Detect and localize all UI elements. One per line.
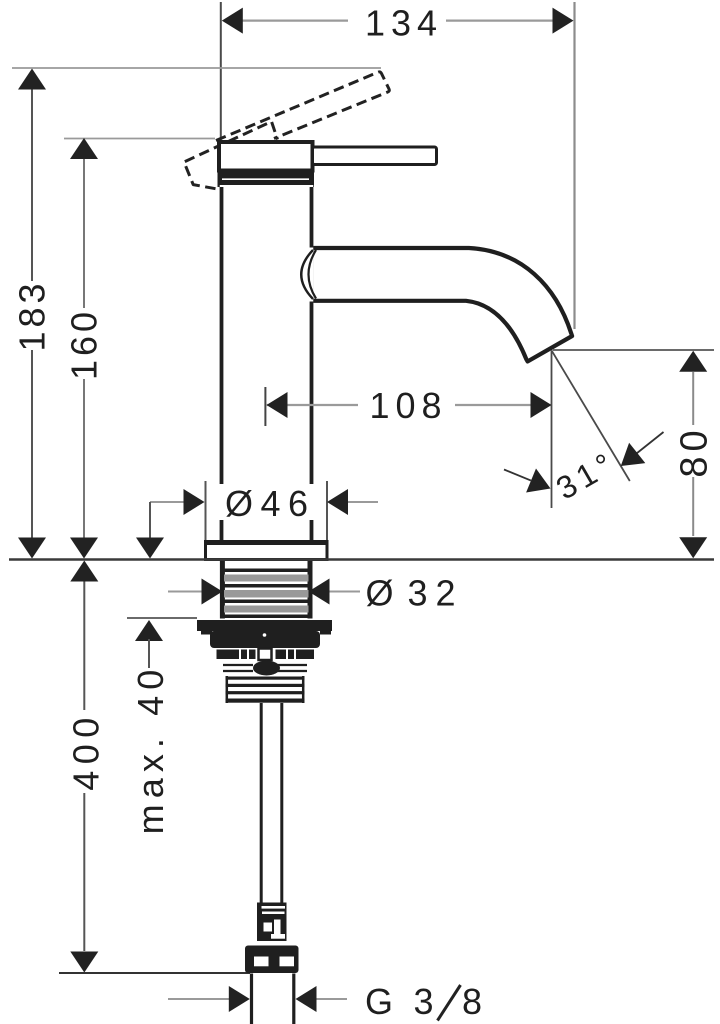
faucet: threaded shank (222, 561, 310, 619)
faucet: lever handle (solid) (313, 147, 437, 165)
svg-text:183: 183 (12, 279, 53, 351)
faucet: mounting nut (197, 620, 332, 676)
svg-text:160: 160 (64, 308, 105, 380)
dimension 183 (12, 68, 382, 559)
svg-text:8: 8 (462, 981, 482, 1022)
faucet: spout (311, 248, 572, 361)
svg-text:3: 3 (414, 981, 434, 1022)
svg-text:G: G (365, 981, 393, 1022)
faucet: body (220, 185, 314, 542)
dimension 108 (265, 385, 551, 426)
dimension 160 (64, 138, 216, 559)
faucet: cartridge head (218, 142, 315, 187)
dimension 31 degrees (504, 350, 664, 508)
svg-text:108: 108 (369, 385, 447, 426)
faucet: spout collar (301, 250, 313, 299)
faucet: base plate (206, 542, 328, 560)
dimension 134 (221, 2, 575, 329)
faucet: lower thread (226, 676, 305, 703)
svg-text:80: 80 (674, 425, 716, 477)
dimension G 3/8 (168, 981, 482, 1022)
svg-text:Ø46: Ø46 (225, 483, 316, 524)
dimension 400 (59, 561, 250, 974)
dimension diameter 46 (136, 481, 378, 559)
mounting surface (9, 558, 714, 560)
svg-text:max. 40: max. 40 (130, 664, 171, 835)
svg-text:134: 134 (365, 3, 443, 44)
svg-text:Ø32: Ø32 (366, 573, 464, 614)
faucet: dashed lever (open position) (184, 72, 389, 189)
svg-text:31°: 31° (550, 444, 623, 507)
dimension max. 40 (127, 618, 197, 834)
dimension 80 (553, 350, 716, 558)
faucet: compression fitting (257, 903, 287, 942)
dimension diameter 32 (168, 573, 464, 614)
faucet: G3/8 connector (245, 946, 299, 1024)
faucet: supply pipe (261, 703, 282, 905)
svg-text:400: 400 (66, 711, 107, 791)
